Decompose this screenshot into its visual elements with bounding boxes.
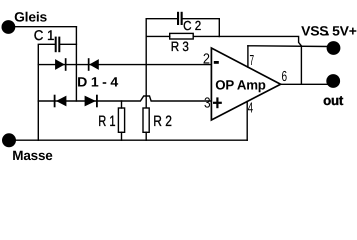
label VSS separator mark [325, 34, 328, 36]
resistor R3 [146, 33, 219, 39]
wire Masse horizontal [15, 139, 247, 141]
svg-text:R 1: R 1 [98, 113, 115, 130]
svg-text:out: out [323, 93, 344, 108]
node out terminal [326, 74, 340, 88]
svg-text:7: 7 [250, 53, 255, 69]
wire VSS [248, 45, 328, 48]
svg-text:Masse: Masse [12, 148, 53, 163]
svg-text:C 2: C 2 [183, 18, 201, 33]
diode D1 [55, 58, 66, 71]
wire C2/R3 right vertical [218, 19, 220, 37]
diode D2 [88, 58, 99, 71]
wire Gleis vertical drop [75, 27, 77, 101]
wire C2 right lead [183, 18, 220, 20]
resistor R2 [143, 108, 149, 140]
wire Gleis horizontal [14, 26, 76, 28]
symbol minus input [214, 61, 219, 64]
capacitor C2 [177, 12, 183, 25]
svg-text:Gleis: Gleis [14, 9, 47, 24]
svg-text:4: 4 [248, 100, 253, 116]
svg-text:R 3: R 3 [171, 39, 189, 54]
wire pin 4 stub [246, 102, 248, 141]
diode D3 [54, 95, 67, 108]
svg-text:R 2: R 2 [153, 113, 172, 130]
wire C2 left lead [146, 18, 177, 20]
wire diode row 1 [38, 64, 211, 66]
svg-text:3: 3 [204, 96, 211, 112]
wire output [281, 83, 327, 85]
wire middle vertical (R2 / feedback node) [145, 19, 147, 108]
capacitor C1 [55, 37, 61, 53]
resistor R1 [118, 101, 124, 140]
diode D4 [85, 95, 98, 108]
symbol plus input [213, 97, 222, 108]
wire left vertical (Masse branch) [38, 44, 54, 140]
node VSS terminal [327, 41, 341, 55]
svg-text:2: 2 [203, 52, 210, 68]
wire pin 7 stub [247, 46, 249, 67]
svg-text:D 1 - 4: D 1 - 4 [77, 75, 119, 90]
wire feedback to output [219, 36, 301, 84]
svg-text:C 1: C 1 [34, 27, 55, 43]
node Masse terminal [2, 133, 16, 147]
wire diode row 2 with hop [38, 96, 211, 101]
svg-text:6: 6 [282, 69, 288, 85]
op-amp U1 [211, 48, 280, 120]
wire C1 right lead [60, 43, 76, 45]
node Gleis terminal [1, 20, 15, 34]
svg-text:VSS 5V+: VSS 5V+ [301, 24, 357, 39]
svg-text:OP Amp: OP Amp [215, 78, 265, 93]
